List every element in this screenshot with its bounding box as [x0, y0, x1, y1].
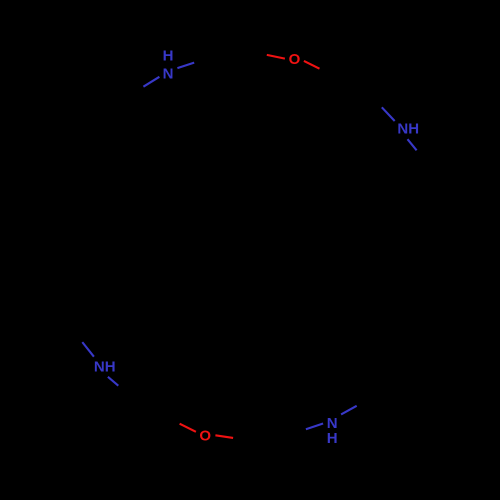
wire N2-C bond stub (up-left): [382, 107, 395, 121]
wire O2-C bond stub (right): [215, 435, 233, 438]
wire N3-C bond stub (up-left): [82, 342, 94, 357]
svg-text:O: O: [289, 51, 301, 68]
svg-text:O: O: [199, 428, 211, 445]
svg-text:N: N: [163, 65, 174, 82]
svg-text:H: H: [327, 430, 338, 447]
svg-text:NH: NH: [397, 121, 419, 138]
wire N3-C bond stub (down-right): [108, 377, 118, 386]
svg-text:H: H: [163, 48, 174, 65]
wire O1-C bond stub (down-right): [304, 61, 320, 69]
wire N1-C bond stub (up-right): [177, 63, 194, 69]
wire O2-C bond stub (up-left): [180, 424, 196, 432]
svg-text:NH: NH: [94, 358, 116, 375]
wire O1-C bond stub (left): [267, 55, 285, 59]
wire N2-C bond stub (down): [408, 139, 417, 150]
wire N4-C bond stub (up-right): [341, 406, 357, 415]
wire N1-C bond stub (down-left): [143, 77, 159, 87]
wire N4-C bond stub (left): [306, 424, 323, 430]
